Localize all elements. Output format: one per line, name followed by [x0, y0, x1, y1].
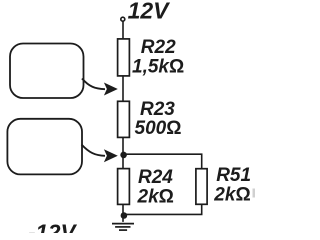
svg-text:12V: 12V [128, 0, 171, 24]
wire node A to R51 top [123, 154, 202, 169]
node A junction dot [120, 152, 127, 159]
svg-text:R51: R51 [216, 165, 251, 186]
terminal +12V [121, 17, 125, 21]
wire R51 bottom to ground node [124, 204, 202, 214]
resistor R51 [196, 169, 207, 205]
svg-text:2kΩ: 2kΩ [137, 186, 174, 207]
wire R22 to R23 [122, 76, 124, 102]
leader arrow 2 [82, 145, 118, 163]
svg-text:1,5kΩ: 1,5kΩ [132, 56, 184, 77]
callout box 1 [10, 44, 84, 99]
wire R23 to R24 [122, 137, 124, 168]
wire 12V terminal to R22 [122, 21, 124, 39]
wire R24 to ground [122, 204, 124, 222]
svg-text:R22: R22 [141, 37, 176, 58]
resistor R22 [118, 39, 130, 76]
node B junction dot [121, 212, 128, 219]
svg-text:2kΩ: 2kΩ [213, 185, 250, 206]
svg-text:500Ω: 500Ω [135, 118, 182, 139]
callout box 2 [7, 119, 82, 175]
svg-text:R24: R24 [138, 167, 173, 188]
resistor R24 [118, 169, 130, 205]
svg-text:R23: R23 [140, 99, 175, 120]
svg-text:-12V: -12V [28, 220, 78, 233]
ground [112, 224, 134, 231]
leader arrow 1 [82, 79, 118, 96]
cropped glyph right edge [253, 189, 256, 198]
resistor R23 [118, 101, 130, 137]
